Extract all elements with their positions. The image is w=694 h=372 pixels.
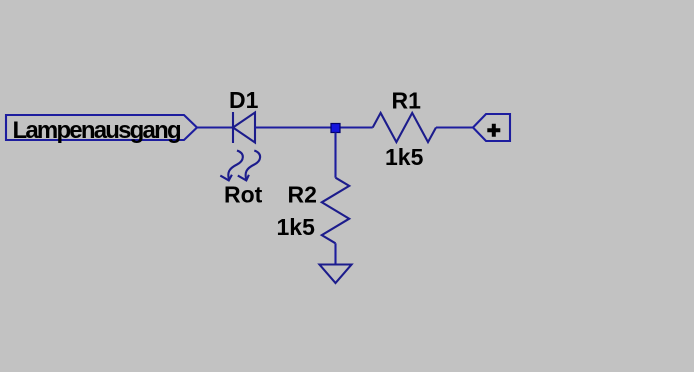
- wire D1 anode to junction: [255, 126, 336, 128]
- svg-text:Lampenausgang: Lampenausgang: [13, 117, 181, 144]
- resistor R2 zigzag: [322, 178, 349, 244]
- svg-text:R2: R2: [288, 182, 317, 208]
- svg-text:Rot: Rot: [224, 182, 263, 208]
- wire junction to R2: [334, 133, 336, 178]
- power flag +: [473, 114, 510, 141]
- ground symbol: [320, 265, 352, 284]
- svg-text:R1: R1: [392, 87, 422, 113]
- LED D1 triangle: [233, 113, 255, 143]
- LED D1 light arrow 1 head: [220, 175, 232, 181]
- resistor R1 zigzag: [373, 113, 436, 142]
- svg-text:1k5: 1k5: [277, 214, 316, 240]
- LED D1 cathode bar: [232, 112, 234, 143]
- svg-text:D1: D1: [229, 87, 259, 113]
- LED D1 light arrow 2 head: [238, 175, 249, 181]
- wire R1 to plus flag: [436, 126, 473, 128]
- wire flag to D1 cathode: [197, 126, 233, 128]
- junction node: [331, 124, 340, 133]
- LED D1 light arrow 2: [246, 151, 261, 180]
- svg-text:1k5: 1k5: [385, 144, 424, 170]
- LED D1 light arrow 1: [228, 151, 243, 180]
- net flag Lampenausgang: [6, 115, 197, 140]
- wire R2 to ground: [334, 243, 336, 264]
- wire junction to R1: [341, 126, 373, 128]
- plus sign: [487, 124, 500, 137]
